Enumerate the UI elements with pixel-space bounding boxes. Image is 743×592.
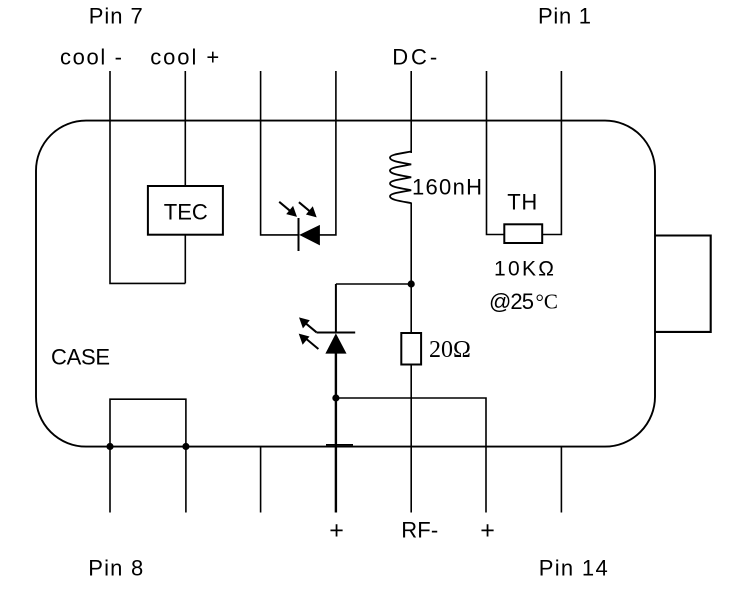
svg-text:10KΩ: 10KΩ [494,258,554,281]
svg-text:TH: TH [507,190,537,215]
svg-text:°C: °C [536,290,558,314]
svg-text:CASE: CASE [51,345,110,370]
svg-text:20Ω: 20Ω [429,337,471,363]
svg-text:RF-: RF- [401,518,438,543]
svg-text:+: + [329,517,344,545]
svg-text:@25: @25 [489,289,534,314]
svg-text:cool -: cool - [60,45,122,70]
svg-text:Pin 8: Pin 8 [88,556,143,581]
svg-text:160nH: 160nH [412,175,482,200]
svg-text:TEC: TEC [164,200,208,225]
svg-text:Pin 1: Pin 1 [538,4,591,29]
svg-text:cool +: cool + [150,45,219,70]
svg-text:DC-: DC- [392,45,437,70]
svg-text:Pin 7: Pin 7 [89,4,143,29]
svg-text:+: + [480,517,495,545]
